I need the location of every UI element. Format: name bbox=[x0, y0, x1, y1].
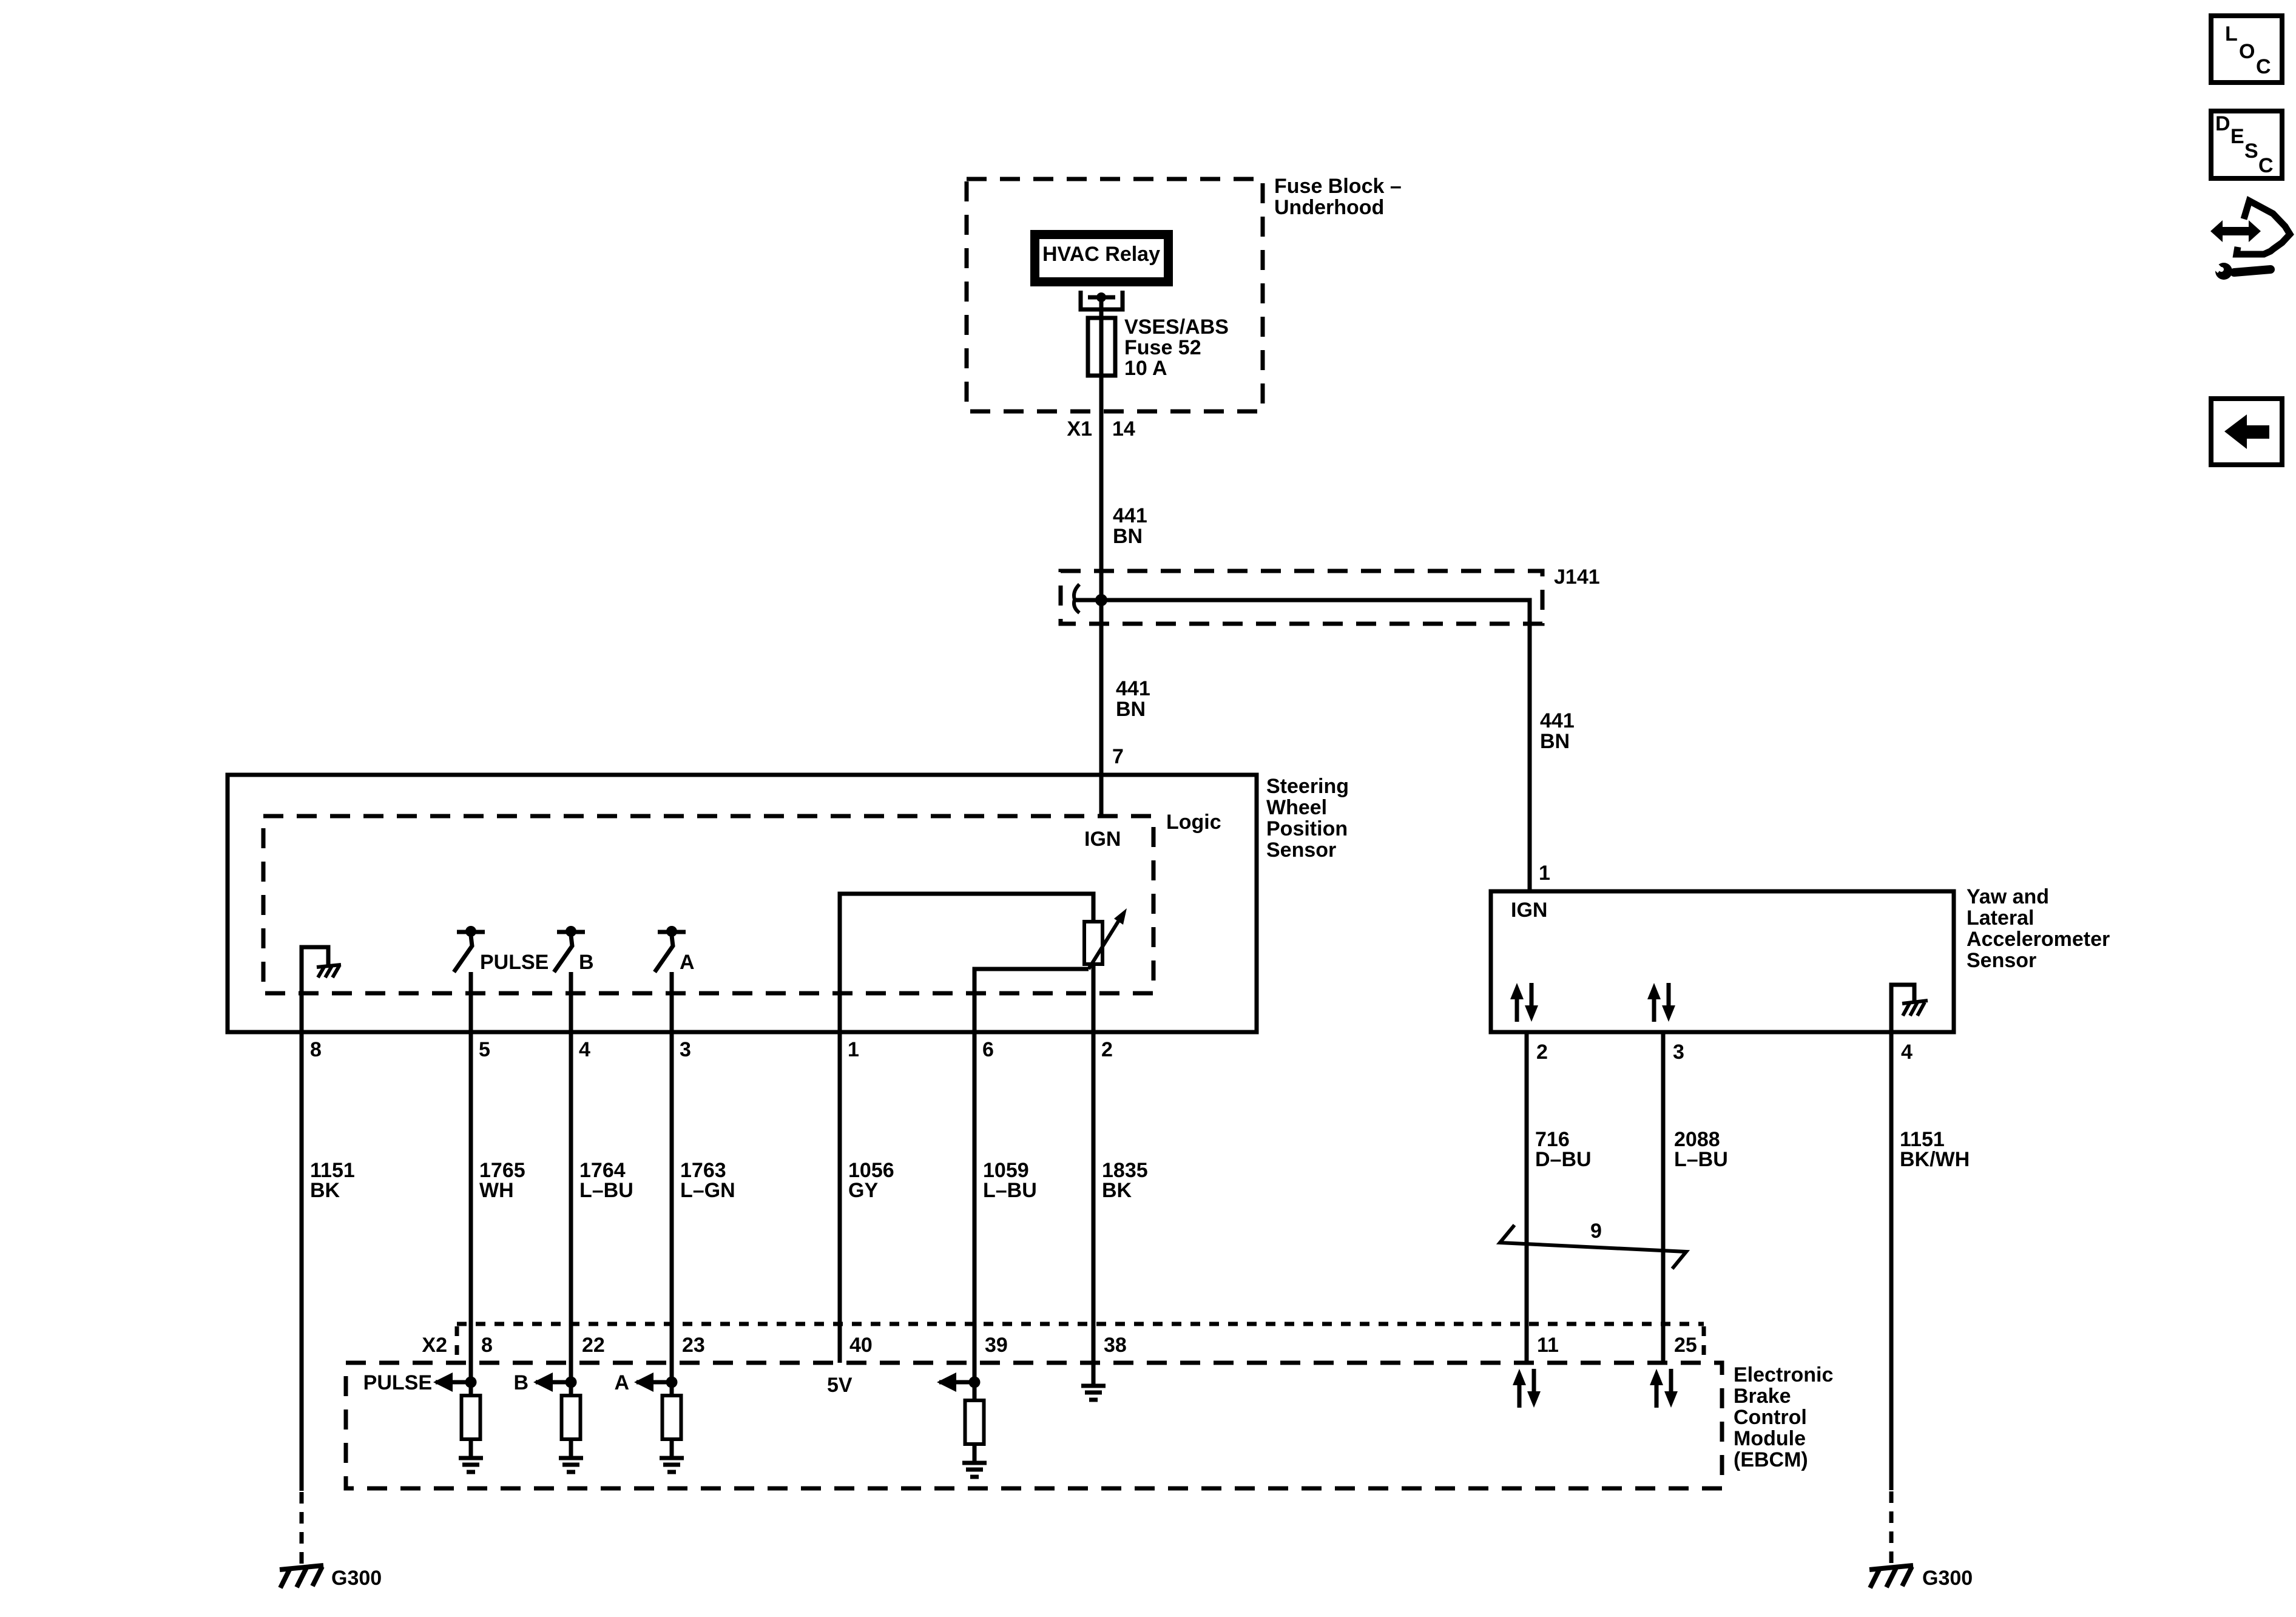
svg-text:O: O bbox=[2239, 40, 2255, 63]
svg-text:38: 38 bbox=[1104, 1334, 1127, 1357]
svg-text:D: D bbox=[2215, 112, 2230, 135]
potentiometer wiring bbox=[840, 894, 1093, 1032]
svg-text:3: 3 bbox=[1673, 1041, 1684, 1064]
bidirectional arrows yaw pin 3 bbox=[1647, 983, 1675, 1022]
svg-text:Accelerometer: Accelerometer bbox=[1967, 928, 2110, 951]
wire fuse to SWPS pin 7 bbox=[1099, 297, 1104, 816]
switch A bbox=[655, 926, 695, 974]
svg-text:PULSE: PULSE bbox=[363, 1371, 432, 1394]
icon back arrow bbox=[2211, 399, 2282, 465]
svg-text:BK: BK bbox=[1102, 1179, 1132, 1202]
svg-text:J141: J141 bbox=[1554, 565, 1600, 589]
svg-text:Underhood: Underhood bbox=[1274, 196, 1384, 219]
svg-text:BN: BN bbox=[1116, 698, 1146, 721]
svg-text:C: C bbox=[2256, 55, 2271, 78]
Steering Wheel Position Sensor box bbox=[228, 775, 1257, 1032]
svg-text:4: 4 bbox=[579, 1038, 590, 1061]
svg-text:6: 6 bbox=[982, 1038, 994, 1061]
EBCM pin 23 pull-up: arrow A, resistor, ground bbox=[614, 1371, 684, 1472]
svg-text:VSES/ABS: VSES/ABS bbox=[1124, 316, 1229, 339]
svg-text:Fuse 52: Fuse 52 bbox=[1124, 336, 1201, 359]
svg-text:G300: G300 bbox=[1922, 1567, 1973, 1590]
svg-text:14: 14 bbox=[1112, 417, 1135, 441]
Logic dashed box bbox=[263, 816, 1153, 993]
icon DESC bbox=[2211, 111, 2282, 178]
svg-text:L–BU: L–BU bbox=[1674, 1148, 1728, 1171]
svg-text:25: 25 bbox=[1674, 1334, 1697, 1357]
icon connector tool (arrow + outline + wrench) bbox=[2210, 201, 2290, 280]
svg-text:8: 8 bbox=[310, 1038, 322, 1061]
wire 1765 WH bbox=[469, 972, 473, 1396]
svg-text:Lateral: Lateral bbox=[1967, 906, 2034, 930]
svg-text:A: A bbox=[680, 951, 695, 974]
svg-text:B: B bbox=[513, 1371, 528, 1394]
svg-text:Brake: Brake bbox=[1734, 1385, 1791, 1408]
svg-text:23: 23 bbox=[682, 1334, 705, 1357]
wire 1056 GY bbox=[838, 1032, 842, 1363]
relay pin bar bbox=[1088, 295, 1115, 300]
svg-text:1: 1 bbox=[1539, 862, 1550, 885]
bidirectional arrows EBCM pin 11 bbox=[1513, 1369, 1541, 1408]
svg-text:BK/WH: BK/WH bbox=[1900, 1148, 1970, 1171]
chassis ground (SWPS internal) bbox=[317, 965, 341, 977]
svg-text:8: 8 bbox=[481, 1334, 493, 1357]
wire J141 horizontal to right branch bbox=[1076, 600, 1530, 891]
J141 junction dashed box bbox=[1061, 571, 1542, 624]
wire 1835 BK bbox=[1092, 1032, 1096, 1386]
fuse block underhood dashed box bbox=[967, 179, 1263, 411]
twisted pair symbol 9 bbox=[1500, 1225, 1686, 1269]
svg-text:X2: X2 bbox=[422, 1334, 447, 1357]
svg-text:Wheel: Wheel bbox=[1266, 796, 1327, 819]
svg-text:D–BU: D–BU bbox=[1535, 1148, 1592, 1171]
svg-text:Module: Module bbox=[1734, 1427, 1806, 1450]
switch PULSE bbox=[454, 926, 549, 974]
svg-text:5: 5 bbox=[479, 1038, 490, 1061]
svg-text:2: 2 bbox=[1536, 1041, 1548, 1064]
svg-text:22: 22 bbox=[582, 1334, 605, 1357]
svg-text:BN: BN bbox=[1113, 525, 1143, 548]
svg-text:Control: Control bbox=[1734, 1406, 1807, 1429]
svg-text:3: 3 bbox=[680, 1038, 691, 1061]
svg-text:2: 2 bbox=[1101, 1038, 1113, 1061]
svg-text:Logic: Logic bbox=[1166, 811, 1221, 834]
svg-text:C: C bbox=[2258, 154, 2274, 177]
EBCM pin 22 pull-up: arrow B, resistor, ground bbox=[513, 1371, 583, 1472]
svg-text:WH: WH bbox=[479, 1179, 514, 1202]
Yaw and Lateral Accelerometer Sensor box bbox=[1491, 891, 1954, 1032]
EBCM pin 39 pull-up: arrow, resistor, ground bbox=[937, 1372, 987, 1477]
fuse F52 body bbox=[1088, 318, 1115, 376]
junction dot J141 bbox=[1095, 594, 1107, 606]
svg-text:BK: BK bbox=[310, 1179, 340, 1202]
internal ground wire (pin 8) bbox=[302, 947, 328, 1032]
svg-text:441: 441 bbox=[1113, 504, 1147, 527]
svg-text:HVAC Relay: HVAC Relay bbox=[1042, 243, 1160, 266]
svg-text:10 A: 10 A bbox=[1124, 357, 1167, 380]
svg-text:L–GN: L–GN bbox=[680, 1179, 735, 1202]
svg-text:40: 40 bbox=[849, 1334, 873, 1357]
svg-text:GY: GY bbox=[848, 1179, 878, 1202]
EBCM dashed box bbox=[346, 1363, 1722, 1488]
svg-text:A: A bbox=[614, 1371, 629, 1394]
relay pin dot bbox=[1096, 292, 1106, 302]
EBCM pin 38 signal ground bbox=[1081, 1386, 1106, 1400]
svg-text:Steering: Steering bbox=[1266, 775, 1349, 798]
splice arc bbox=[1074, 584, 1079, 613]
svg-text:1: 1 bbox=[848, 1038, 859, 1061]
potentiometer body bbox=[1084, 922, 1102, 964]
wire 1763 L-GN bbox=[670, 972, 674, 1396]
potentiometer wiper arrow bbox=[1089, 916, 1122, 969]
svg-text:S: S bbox=[2244, 140, 2258, 163]
wire 1151 BK/WH bbox=[1889, 1032, 1894, 1490]
svg-text:L–BU: L–BU bbox=[579, 1179, 633, 1202]
svg-text:(EBCM): (EBCM) bbox=[1734, 1448, 1808, 1471]
svg-text:7: 7 bbox=[1112, 745, 1124, 768]
icon LOC bbox=[2211, 16, 2282, 83]
G300 chassis ground left bbox=[280, 1565, 323, 1588]
wire 1151 BK bbox=[300, 1032, 304, 1491]
svg-text:Fuse Block –: Fuse Block – bbox=[1274, 175, 1402, 198]
svg-text:441: 441 bbox=[1540, 709, 1575, 732]
svg-text:PULSE: PULSE bbox=[480, 951, 549, 974]
switch B bbox=[554, 926, 594, 974]
svg-text:Sensor: Sensor bbox=[1266, 839, 1336, 862]
svg-text:9: 9 bbox=[1590, 1220, 1602, 1243]
relay pin cup connector bbox=[1081, 291, 1123, 309]
svg-text:Position: Position bbox=[1266, 817, 1348, 840]
svg-text:G300: G300 bbox=[331, 1567, 382, 1590]
wire 1059 L-BU bbox=[973, 1032, 977, 1400]
svg-text:E: E bbox=[2230, 125, 2244, 148]
svg-text:5V: 5V bbox=[827, 1374, 853, 1397]
EBCM pin 8 pull-up: arrow PULSE, resistor, ground bbox=[363, 1371, 483, 1472]
svg-text:441: 441 bbox=[1116, 677, 1150, 700]
bidirectional arrows yaw pin 2 bbox=[1510, 983, 1538, 1022]
wire 1764 L-BU bbox=[569, 972, 573, 1396]
internal ground (yaw pin 4) bbox=[1891, 985, 1914, 1032]
svg-text:L–BU: L–BU bbox=[983, 1179, 1037, 1202]
wire 2088 L-BU bbox=[1661, 1032, 1666, 1363]
X2 connector dotted line bbox=[457, 1322, 1704, 1326]
svg-text:4: 4 bbox=[1901, 1041, 1913, 1064]
wire 716 D-BU bbox=[1525, 1032, 1529, 1363]
svg-text:BN: BN bbox=[1540, 730, 1570, 753]
bidirectional arrows EBCM pin 25 bbox=[1650, 1369, 1678, 1408]
svg-text:11: 11 bbox=[1537, 1334, 1559, 1357]
G300 chassis ground right bbox=[1869, 1565, 1913, 1588]
svg-text:Sensor: Sensor bbox=[1967, 949, 2036, 972]
svg-text:B: B bbox=[579, 951, 594, 974]
svg-text:L: L bbox=[2225, 22, 2238, 46]
svg-text:Electronic: Electronic bbox=[1734, 1363, 1833, 1386]
svg-text:39: 39 bbox=[985, 1334, 1008, 1357]
HVAC Relay box bbox=[1035, 235, 1169, 282]
svg-text:IGN: IGN bbox=[1511, 899, 1547, 922]
svg-text:IGN: IGN bbox=[1084, 828, 1121, 851]
svg-text:Yaw and: Yaw and bbox=[1967, 885, 2049, 908]
svg-text:X1: X1 bbox=[1067, 417, 1092, 441]
